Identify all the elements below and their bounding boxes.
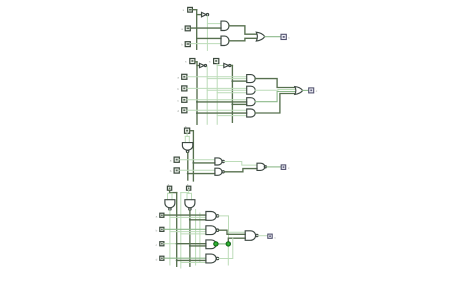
wire pin A to NAND N1 top <box>179 159 215 161</box>
wire pin S1 to vertical <box>195 61 197 63</box>
input pin X1 <box>185 26 190 31</box>
wire ~s1 to B2 mid input <box>207 89 247 91</box>
wire t1 to M3 (dark) <box>177 243 206 245</box>
wire ~s bus vertical (dark) <box>187 153 189 180</box>
svg-text:s: s <box>185 60 187 64</box>
wire s0 to B4 bottom input <box>217 115 247 117</box>
NAND gate M1 <box>206 212 219 221</box>
wire ~s0 to B1 bottom input <box>232 80 246 82</box>
input pin P2 <box>160 227 164 231</box>
wire T0 down <box>188 190 190 192</box>
wire t1 to M4 mid (dark) <box>177 259 206 261</box>
junction <box>196 112 198 114</box>
svg-text:a: a <box>170 158 172 162</box>
wire B2 output to OR <box>255 89 295 92</box>
NAND inverter U4 (pointing down) <box>182 143 192 153</box>
wire M4 output to M5 <box>219 238 233 258</box>
wire vertical ~s0 bus (dark) <box>231 66 233 123</box>
wire pin X0 to AND B4 <box>187 109 247 111</box>
wire tied left <box>167 193 169 199</box>
wire stub to NOT U3 <box>217 65 224 67</box>
wire spare vertical v2 (pale) <box>199 213 201 262</box>
input pin T0 <box>187 186 191 190</box>
wire tied input left <box>184 136 186 142</box>
wire vertical ~t0 bus (dark) <box>189 210 191 266</box>
NAND gate M2 <box>206 226 219 235</box>
wire M3 jog up to M5 <box>228 238 245 244</box>
svg-text:c: c <box>274 235 276 239</box>
NAND gate N2 <box>215 168 224 175</box>
wire s bus to AND A2 top input <box>197 37 221 39</box>
svg-text:c: c <box>288 35 290 39</box>
NOT gate U2 <box>200 63 207 67</box>
wire pin X0 to AND A2 bottom input <box>191 43 221 45</box>
NAND gate M5 <box>245 231 258 241</box>
junction <box>192 162 194 164</box>
wire M2 output to M5 <box>219 230 246 234</box>
junction <box>231 103 233 105</box>
junction <box>196 101 198 103</box>
svg-text:c: c <box>177 99 179 103</box>
wire s1 to B3 mid input <box>197 101 247 103</box>
wire ~t1 to M2 mid <box>170 231 206 233</box>
output pin Y3 <box>281 165 286 170</box>
junction <box>189 219 191 221</box>
wire pin X3 to AND B1 <box>187 76 247 78</box>
output pin Y <box>281 34 286 39</box>
wire T1 jog to t1 bus <box>170 192 177 194</box>
svg-text:a: a <box>177 76 179 80</box>
wire M3 vertical below (pale) <box>227 246 229 265</box>
wire split horizontal <box>185 135 189 137</box>
wire pin S to s bus <box>190 131 194 181</box>
svg-text:b: b <box>170 169 172 173</box>
wire OR O2 output to pin <box>303 89 309 91</box>
NAND gate M3 <box>206 240 216 249</box>
NAND gate M4 <box>206 254 219 263</box>
svg-text:b: b <box>156 229 158 233</box>
NAND inverter U5 (pointing down) <box>165 200 175 211</box>
svg-text:s: s <box>183 8 185 12</box>
svg-text:s: s <box>209 60 211 64</box>
wire pin P1 to t1 bus (pale) <box>164 243 177 245</box>
AND gate B2 <box>247 86 256 94</box>
junction <box>231 80 233 82</box>
wire tied right <box>171 193 173 199</box>
input pin X0 <box>185 42 190 47</box>
NOT gate U3 <box>224 63 231 67</box>
wire pin S down <box>186 133 188 136</box>
wire B4 output to OR <box>255 94 295 114</box>
wire T1 down <box>169 190 171 192</box>
wire N3 output to pin Y <box>267 166 282 168</box>
wire ~t0 to M3 bottom <box>190 245 206 247</box>
wire A1 output to OR <box>229 26 257 34</box>
wire stub to NOT U1 <box>197 14 202 16</box>
svg-text:c: c <box>288 166 290 170</box>
wire vertical t1 bus (dark) <box>176 193 178 267</box>
wire spare vertical v1 (pale) <box>195 210 197 266</box>
wire tied right <box>191 193 193 199</box>
input pin X3 <box>182 74 187 79</box>
input pin P0 <box>160 256 164 260</box>
input pin X2 <box>182 86 187 91</box>
wire NOT output to AND A1 top input <box>207 23 221 25</box>
wire ~t1 to M1 mid <box>170 216 206 218</box>
wire pin X1 to AND B3 <box>187 99 247 101</box>
wire ~t0 to M1 bottom <box>190 219 206 221</box>
input pin A <box>174 157 179 162</box>
wire ~s bus to NAND N2 bottom <box>188 173 215 175</box>
wire tied input right <box>188 136 190 142</box>
input pin X1 <box>182 97 187 102</box>
AND gate A1 <box>221 21 229 30</box>
AND gate B3 <box>247 98 256 106</box>
input pin B <box>174 168 179 173</box>
wire tied left <box>186 193 188 199</box>
svg-text:b: b <box>177 87 179 91</box>
input pin T1 <box>167 186 171 190</box>
wire vertical t0 bus (pale) <box>180 193 182 268</box>
junction dot J1 (green) <box>214 242 219 247</box>
wire M1 output to M5 <box>219 216 246 232</box>
wire vertical s bus <box>196 10 198 50</box>
wire s bus to NAND N1 bottom <box>193 162 215 164</box>
svg-text:a: a <box>156 215 158 219</box>
wire vertical ~s1 bus (pale) <box>206 67 208 125</box>
wire s0 to B2 bottom input <box>217 92 247 94</box>
svg-text:d: d <box>156 258 158 262</box>
input pin P1 <box>160 242 164 246</box>
wire pin P3 to NAND M1 (dark) <box>164 214 206 216</box>
wire t0 to M2 bottom <box>181 233 206 235</box>
NAND inverter U6 (pointing down) <box>185 200 195 211</box>
wire ~s0 to B3 bottom input <box>232 103 246 105</box>
svg-text:a: a <box>181 27 183 31</box>
wire OR output to pin Y <box>265 36 281 38</box>
wire vertical s1 bus (dark) <box>196 62 198 125</box>
wire NOT U1 output vertical (pale) <box>206 16 208 51</box>
input pin X0 <box>182 108 187 113</box>
NOT gate U1 <box>202 12 209 16</box>
input pin S <box>188 7 193 12</box>
wire B3 output to OR <box>255 92 295 102</box>
wire N2 output to N3 <box>224 169 257 172</box>
wire s1 to B4 mid input <box>197 112 247 114</box>
junction dot J2 (green) <box>226 242 231 247</box>
wire T0 tied pair top <box>187 192 192 194</box>
wire T0 jog to t0 bus <box>181 192 189 194</box>
svg-text:d: d <box>177 109 179 113</box>
wire NOT U3 output to ~s0 bus <box>231 65 233 67</box>
junction <box>187 173 189 175</box>
OR gate O2 <box>295 87 303 95</box>
NAND gate N1 <box>215 158 224 165</box>
wire T1 tied pair top <box>168 192 173 194</box>
wire vertical ~t1 bus (pale) <box>169 210 171 265</box>
wire A2 output to OR <box>229 38 257 41</box>
wire M3 output (bright) <box>215 243 229 245</box>
wire pin P2 to NAND M2 <box>164 228 206 230</box>
junction <box>176 243 178 245</box>
svg-text:c: c <box>316 89 318 93</box>
wire pin S to vertical <box>192 9 196 11</box>
OR gate O1 <box>256 32 265 41</box>
svg-text:c: c <box>156 243 158 247</box>
input pin S (top) <box>185 128 190 133</box>
wire stub to NOT U2 <box>197 65 200 67</box>
input pin S0 <box>214 59 219 64</box>
wire vertical continuation at junction column (pale) <box>228 232 230 246</box>
input pin S1 <box>190 59 195 64</box>
NAND gate N3 <box>257 163 267 170</box>
wire ~s1 to B1 mid input <box>207 78 247 80</box>
AND gate B4 <box>247 109 256 117</box>
AND gate B1 <box>247 75 256 83</box>
wire pin P0 to NAND M4 <box>164 257 206 259</box>
wire M5 output to pin <box>258 235 268 237</box>
output pin Y2 <box>309 88 314 93</box>
wire B1 output to OR <box>255 79 295 88</box>
junction <box>176 259 178 261</box>
svg-text:b: b <box>181 43 183 47</box>
wire t0 to M4 bottom <box>181 262 206 264</box>
input pin P3 <box>160 213 164 217</box>
AND gate A2 <box>221 36 229 45</box>
wire vertical s0 bus (pale) <box>216 64 218 125</box>
output pin Y4 <box>268 234 272 238</box>
wire N1 output to N3 <box>224 162 257 166</box>
wire pin X1 to AND A1 bottom input <box>191 27 221 29</box>
junction <box>189 245 191 247</box>
wire pin B to NAND N2 top <box>179 169 215 171</box>
wire pin X2 to AND B2 <box>187 87 247 89</box>
